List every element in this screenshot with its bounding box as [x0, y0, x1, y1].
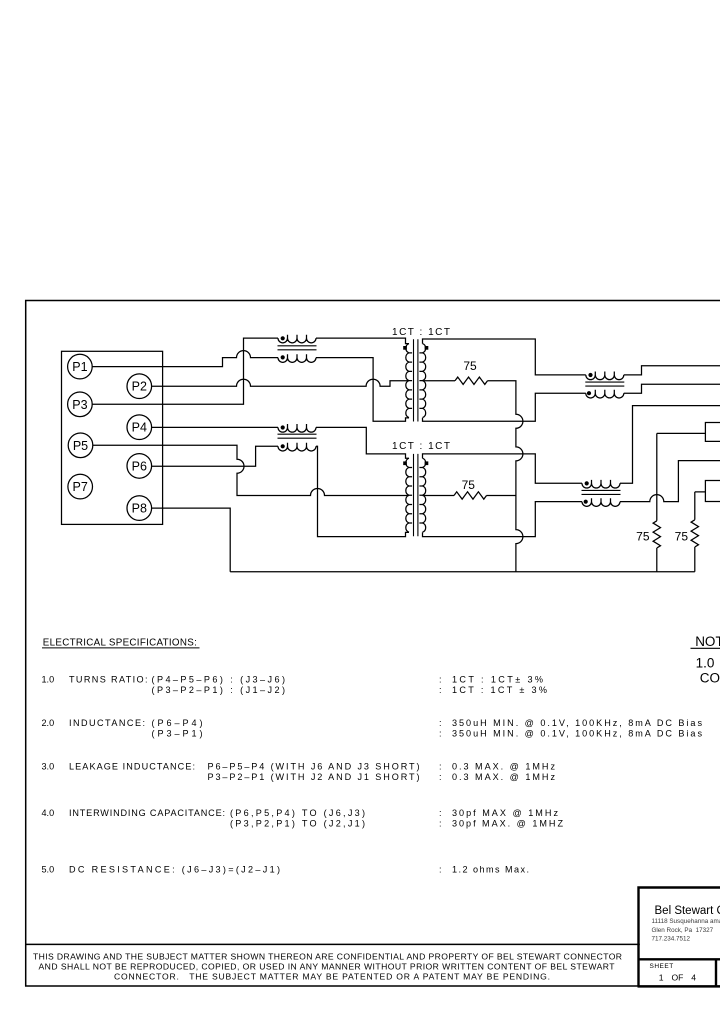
- svg-text:1CT : 1CT: 1CT : 1CT: [392, 441, 450, 452]
- wire P1 to CM1 lower winding (hop over P3 vertical): [92, 351, 278, 367]
- resistor R3 top wire to J box B: [695, 492, 706, 520]
- svg-text:P8: P8: [132, 502, 147, 516]
- svg-text:1 OF 4: 1 OF 4: [659, 973, 696, 983]
- wire T1 secondary bottom to CM2 lower: [423, 393, 586, 421]
- wire T1 secondary top to CM2 upper: [423, 339, 586, 375]
- confidentiality notice text: [33, 951, 622, 981]
- choke CM4 core: [278, 434, 317, 438]
- wire T2 secondary top to CM3 upper: [423, 454, 583, 483]
- svg-text:P2: P2: [132, 380, 147, 394]
- resistor R4 75 ohm wire from T2 secondary center tap: [423, 494, 455, 496]
- svg-text::: :: [439, 819, 442, 829]
- svg-text:717.234.7512: 717.234.7512: [652, 936, 691, 943]
- SCHEMATIC: [62, 327, 720, 572]
- spec 3.0 leakage inductance: [42, 761, 556, 782]
- wire CM1 lower to T1 primary bottom: [316, 358, 409, 422]
- svg-text:Glen Rock, Pa 17327: Glen Rock, Pa 17327: [652, 927, 714, 934]
- svg-text:COU: COU: [700, 671, 720, 686]
- svg-text:2.0: 2.0: [42, 718, 55, 728]
- svg-text:P6: P6: [132, 459, 147, 473]
- svg-text:INTERWINDING CAPACITANCE:: INTERWINDING CAPACITANCE:: [69, 808, 225, 818]
- svg-text:ELECTRICAL SPECIFICATIONS:: ELECTRICAL SPECIFICATIONS:: [43, 637, 197, 648]
- wire P4 to CM4 upper winding: [152, 426, 278, 428]
- wire P3 to CM1 upper winding: [92, 338, 278, 404]
- svg-text:75: 75: [462, 478, 476, 492]
- wire P2 to T1 primary center tap (hops at x=243.5 and x=373.1): [152, 379, 409, 386]
- svg-text:TURNS RATIO:: TURNS RATIO:: [69, 674, 148, 684]
- svg-text:3.0: 3.0: [42, 761, 55, 771]
- wire CM1 upper to T1 primary top: [316, 338, 409, 344]
- svg-text:30pf MAX @ 1MHz: 30pf MAX @ 1MHz: [452, 808, 558, 818]
- choke CM1 upper winding: [278, 335, 316, 343]
- choke CM2 lower winding: [586, 390, 624, 398]
- svg-text:75: 75: [675, 530, 689, 544]
- transformer T2 polarity dots: [403, 461, 407, 465]
- connector J box A (right edge): [705, 423, 720, 442]
- spec 2.0 inductance: [42, 718, 703, 739]
- title block bottom thick edge: [638, 985, 720, 987]
- resistor R3 zigzag vertical: [691, 520, 698, 547]
- pin P4: [127, 415, 152, 440]
- svg-text:4.0: 4.0: [42, 808, 55, 818]
- svg-text:P3: P3: [72, 398, 87, 412]
- resistor R1 zigzag: [455, 377, 488, 384]
- resistor R3 bottom stem: [694, 547, 696, 572]
- svg-text:75: 75: [463, 359, 477, 373]
- svg-text::: :: [439, 685, 442, 695]
- drawing frame border: [26, 301, 720, 987]
- svg-text:P4: P4: [132, 421, 147, 435]
- choke CM2 upper winding: [586, 372, 624, 380]
- svg-text:DC RESISTANCE: (J6–J3)=(J2–J: DC RESISTANCE: (J6–J3)=(J2–J1): [69, 865, 280, 875]
- svg-text::: :: [439, 674, 442, 684]
- svg-text::: :: [439, 865, 442, 875]
- notice box top edge: [25, 943, 640, 945]
- resistor R2 top wire to J box A: [657, 433, 706, 520]
- connector J box B (right edge): [705, 481, 720, 502]
- pin P2: [127, 374, 152, 399]
- svg-text:1CT : 1CT± 3%: 1CT : 1CT± 3%: [452, 674, 543, 684]
- svg-text:AND SHALL NOT BE REPRODUCE: AND SHALL NOT BE REPRODUCED, COPIED, OR …: [39, 961, 616, 971]
- wire P5 to T2 primary center tap (vertical hop over P6 wire, horizontal hop over x=317.5): [93, 445, 409, 495]
- svg-text:1.0: 1.0: [42, 674, 55, 684]
- svg-text:(P6,P5,P4) TO (J6,J3): (P6,P5,P4) TO (J6,J3): [230, 808, 365, 818]
- choke CM1 polarity dots: [281, 336, 285, 340]
- pin P3: [68, 392, 93, 417]
- wire R4 to common vertical: [487, 494, 516, 496]
- choke CM4 lower winding: [278, 443, 316, 451]
- resistor R2 bottom stem: [656, 548, 658, 572]
- svg-text:CONNECTOR. THE SUBJECT MAT: CONNECTOR. THE SUBJECT MATTER MAY BE PAT…: [114, 971, 550, 981]
- transformer T2 core: [414, 454, 418, 536]
- svg-text:THIS DRAWING AND THE SUBJE: THIS DRAWING AND THE SUBJECT MATTER SHOW…: [33, 951, 622, 961]
- svg-text:(P3,P2,P1) TO (J2,J1): (P3,P2,P1) TO (J2,J1): [230, 819, 365, 829]
- svg-text:11118 Susquehanna ama: 11118 Susquehanna ama: [652, 918, 720, 925]
- svg-text:350uH MIN. @ 0.1V, 100KHz,: 350uH MIN. @ 0.1V, 100KHz, 8mA DC Bias: [452, 729, 702, 739]
- choke CM3 polarity dots: [585, 481, 589, 485]
- svg-text:(P3–P1): (P3–P1): [152, 729, 203, 739]
- svg-text:SHEET: SHEET: [650, 963, 674, 970]
- wire P6 up to CM4 lower winding: [152, 446, 278, 466]
- heading underline: [42, 647, 200, 649]
- svg-text:(P6–P4): (P6–P4): [152, 718, 203, 728]
- svg-text:P1: P1: [72, 360, 87, 374]
- choke CM4 polarity dots: [281, 425, 285, 429]
- resistor R4 zigzag: [454, 492, 487, 499]
- svg-text:P5: P5: [73, 439, 88, 453]
- spec 5.0 dc resistance: [42, 865, 530, 875]
- frame bottom edge: [25, 985, 720, 987]
- choke CM3 lower winding: [582, 498, 620, 506]
- svg-text:P7: P7: [73, 480, 88, 494]
- wire CM4 lower down to T2 primary bottom: [316, 446, 409, 536]
- svg-text::: :: [439, 729, 442, 739]
- svg-text:LEAKAGE INDUCTANCE:: LEAKAGE INDUCTANCE:: [69, 761, 195, 771]
- choke CM2 core: [585, 382, 624, 386]
- svg-text:350uH MIN. @ 0.1V, 100KHz,: 350uH MIN. @ 0.1V, 100KHz, 8mA DC Bias: [452, 718, 702, 728]
- svg-text::: :: [439, 772, 442, 782]
- title block inner vertical divider: [715, 959, 717, 986]
- pin P1: [68, 354, 93, 379]
- wire CM2 lower to right edge J: [624, 384, 720, 393]
- svg-text::: :: [439, 808, 442, 818]
- transformer T1 polarity dots: [403, 346, 407, 350]
- choke CM2 polarity dots: [588, 373, 592, 377]
- wire R1 to common vertical (hops over 3 horizontals): [488, 381, 523, 572]
- title block divider line: [639, 958, 720, 960]
- pin P8: [127, 496, 152, 521]
- wire CM3 lower to right edge J (hop over R2 vertical): [620, 461, 720, 502]
- wire T2 secondary bottom to CM3 lower: [423, 502, 583, 537]
- svg-text:1CT : 1CT: 1CT : 1CT: [392, 327, 450, 338]
- pin P5: [68, 433, 93, 458]
- title block outer thick border: [639, 888, 720, 987]
- svg-text:P6–P5–P4 (WITH J6 AND J3: P6–P5–P4 (WITH J6 AND J3 SHORT): [208, 761, 420, 771]
- wire bottom common rail: [230, 571, 695, 573]
- svg-text::: :: [439, 718, 442, 728]
- resistor R2 zigzag vertical: [653, 521, 660, 548]
- wire CM2 upper to right edge J: [624, 366, 720, 375]
- choke CM3 core: [582, 490, 621, 494]
- wire CM4 upper to T2 primary top: [316, 427, 409, 458]
- transformer T2 secondary winding: [419, 458, 425, 532]
- svg-text:1.2 ohms Max.: 1.2 ohms Max.: [452, 865, 529, 875]
- transformer T1 primary winding: [406, 344, 412, 418]
- spec 4.0 interwinding capacitance: [42, 808, 564, 829]
- svg-text:NOTES:: NOTES:: [695, 634, 720, 649]
- svg-text:Bel Stewart Co: Bel Stewart Co: [655, 905, 720, 917]
- svg-text:P3–P2–P1 (WITH J2 AND J1: P3–P2–P1 (WITH J2 AND J1 SHORT): [208, 772, 420, 782]
- transformer T1 secondary winding: [419, 344, 425, 418]
- transformer T1 core: [414, 339, 418, 421]
- svg-text::: :: [439, 761, 442, 771]
- svg-text:30pf MAX. @ 1MHZ: 30pf MAX. @ 1MHZ: [452, 819, 563, 829]
- resistor R1 75 ohm wire from T1 secondary center tap: [423, 380, 456, 382]
- choke CM1 lower winding: [278, 354, 316, 362]
- transformer T2 primary winding: [406, 458, 412, 532]
- TITLE BLOCK: [33, 888, 720, 987]
- pin P6: [127, 454, 152, 479]
- connector box P: [62, 351, 163, 524]
- notes heading (cut at right edge): [691, 634, 720, 685]
- choke CM1 core: [278, 346, 317, 350]
- svg-text:5.0: 5.0: [42, 865, 55, 875]
- wire CM3 upper to right edge J: [620, 406, 720, 484]
- svg-text:75: 75: [636, 530, 650, 544]
- wire P8 to bottom common rail: [152, 508, 231, 572]
- svg-text:1.0: 1.0: [696, 655, 715, 670]
- pin P7: [68, 474, 93, 499]
- choke CM4 upper winding: [278, 424, 316, 432]
- choke CM3 upper winding: [582, 480, 620, 488]
- SPECS TEXT: [42, 634, 720, 874]
- spec 1.0 turns ratio: [42, 674, 548, 695]
